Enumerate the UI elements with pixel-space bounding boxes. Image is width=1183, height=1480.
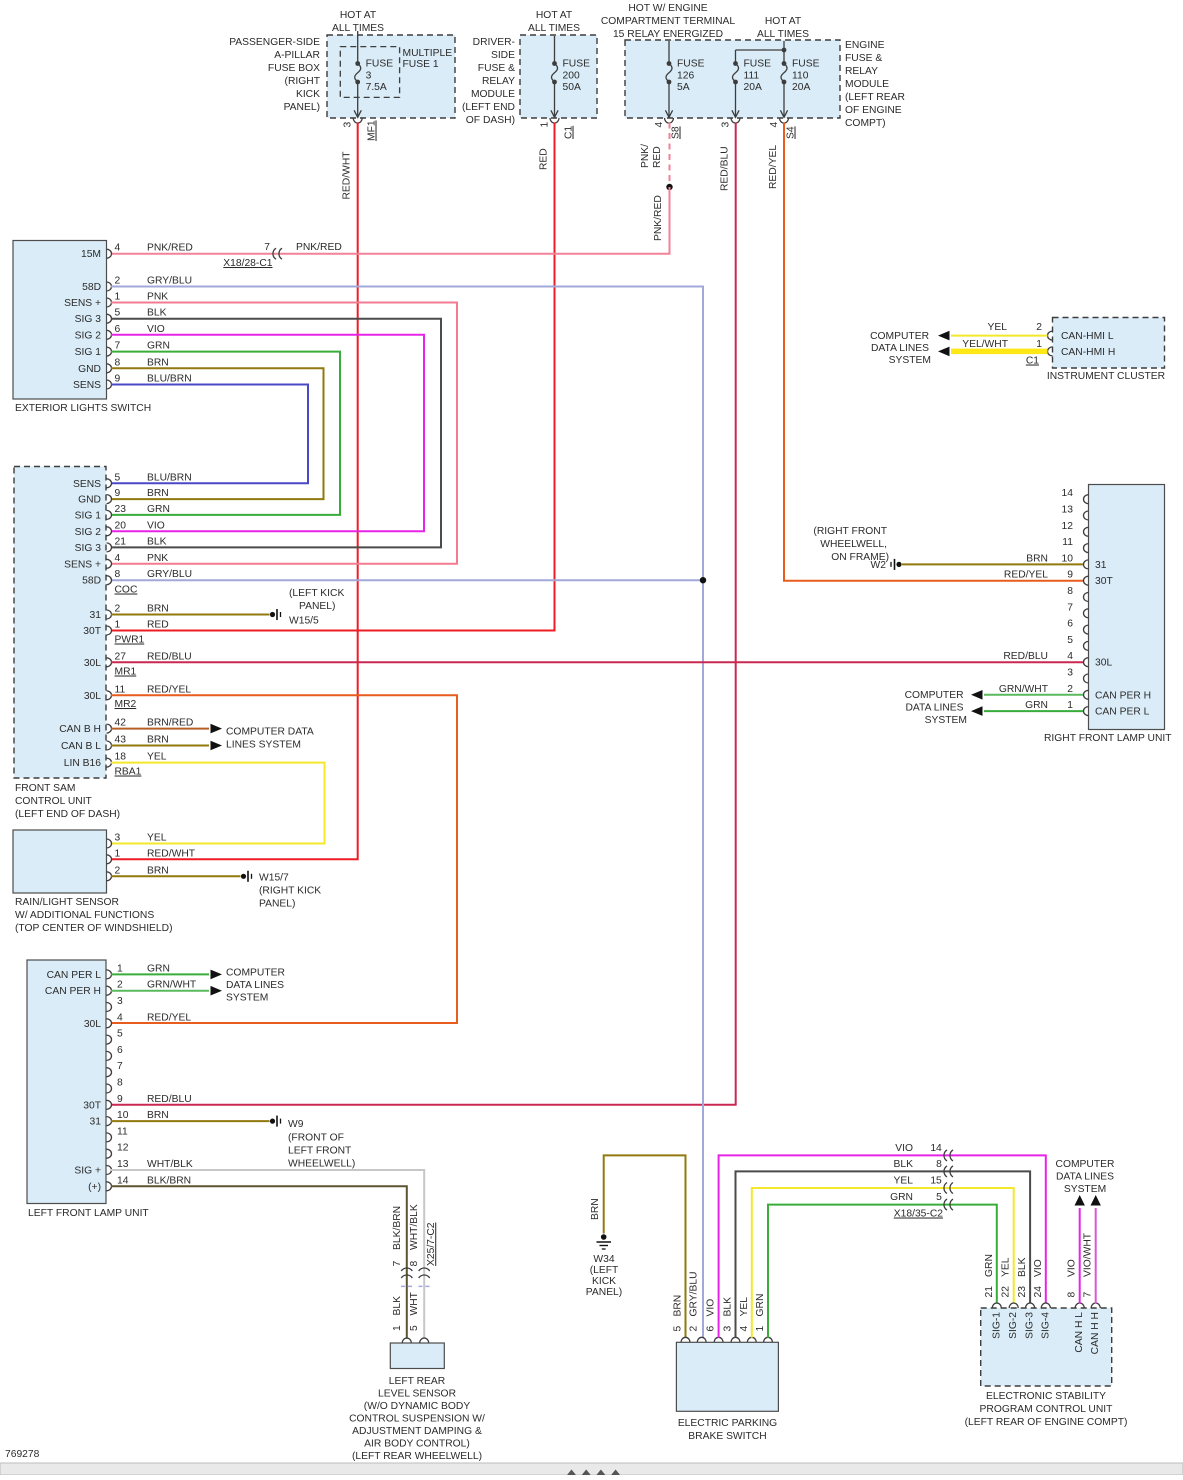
- svg-text:7: 7: [264, 242, 270, 253]
- wire BLK exterior lights switch to front SAM: [111, 319, 441, 548]
- svg-text:7: 7: [1067, 602, 1073, 613]
- svg-text:YEL: YEL: [894, 1176, 914, 1187]
- svg-text:PWR1: PWR1: [115, 635, 145, 646]
- fuse box F3: engine fuse & relay module: [601, 3, 905, 129]
- svg-text:PANEL): PANEL): [586, 1287, 622, 1298]
- svg-text:12: 12: [1062, 521, 1074, 532]
- svg-text:BRN: BRN: [147, 357, 169, 368]
- wire RED/YEL SAM pin 11 (30L) to left front lamp pin 4 (30L): [111, 695, 457, 1023]
- svg-text:2: 2: [689, 1326, 700, 1332]
- svg-text:RED/BLU: RED/BLU: [147, 651, 192, 662]
- svg-text:COMPARTMENT TERMINAL: COMPARTMENT TERMINAL: [601, 16, 736, 27]
- svg-text:4: 4: [115, 243, 121, 254]
- svg-text:CAN B H: CAN B H: [59, 724, 101, 735]
- svg-text:BRN/RED: BRN/RED: [147, 718, 193, 729]
- svg-text:W/ ADDITIONAL FUNCTIONS: W/ ADDITIONAL FUNCTIONS: [15, 910, 154, 921]
- svg-text:OF ENGINE: OF ENGINE: [845, 105, 902, 116]
- svg-text:5: 5: [115, 308, 121, 319]
- svg-text:C1: C1: [1026, 356, 1039, 367]
- wire VIO/WHT ESP CAN H H to computer data lines: [1091, 1195, 1101, 1304]
- computer data lines system label (SAM): [226, 727, 314, 751]
- svg-text:CAN-HMI L: CAN-HMI L: [1061, 331, 1114, 342]
- svg-text:WHT/BLK: WHT/BLK: [409, 1204, 420, 1250]
- svg-text:5: 5: [409, 1325, 420, 1331]
- svg-text:RIGHT FRONT LAMP UNIT: RIGHT FRONT LAMP UNIT: [1044, 733, 1172, 744]
- left front lamp unit pin 8: [107, 1078, 124, 1094]
- svg-text:58D: 58D: [82, 576, 101, 587]
- svg-text:RED/BLU: RED/BLU: [1003, 651, 1048, 662]
- svg-text:SIG 3: SIG 3: [75, 314, 102, 325]
- bottom grey band: [0, 1463, 1183, 1475]
- wire PNK/RED from S8: dashed segment, splice, to exterior lights switch 15M: [111, 123, 673, 254]
- svg-text:14: 14: [117, 1175, 129, 1186]
- svg-text:5: 5: [1067, 635, 1073, 646]
- svg-text:7: 7: [1083, 1292, 1094, 1298]
- electric parking brake switch pin 5 BRN: [673, 1295, 691, 1343]
- svg-text:BRN: BRN: [147, 865, 169, 876]
- svg-text:3: 3: [343, 122, 354, 128]
- right front lamp unit pin 6: [1067, 619, 1088, 635]
- svg-text:111: 111: [744, 71, 760, 82]
- svg-text:YEL: YEL: [1001, 1257, 1012, 1277]
- wire RED/YEL from S4 down to right front lamp pin 9 (30T): [768, 123, 1083, 581]
- svg-text:RED: RED: [539, 148, 550, 170]
- left front lamp unit box: [27, 960, 149, 1219]
- svg-text:8: 8: [1067, 586, 1073, 597]
- svg-text:LINES SYSTEM: LINES SYSTEM: [226, 740, 301, 751]
- svg-text:GRY/BLU: GRY/BLU: [689, 1271, 700, 1316]
- left front lamp unit pin 11: [107, 1126, 128, 1142]
- svg-text:769278: 769278: [5, 1449, 40, 1460]
- svg-text:BRN: BRN: [147, 488, 169, 499]
- svg-text:30T: 30T: [1095, 576, 1113, 587]
- svg-text:2: 2: [1067, 684, 1073, 695]
- ESP control unit pin 21 SIG-1 GRN: [984, 1254, 1003, 1339]
- svg-text:BLK/BRN: BLK/BRN: [147, 1175, 191, 1186]
- svg-text:X18/28-C1: X18/28-C1: [223, 258, 273, 269]
- svg-text:ADJUSTMENT DAMPING &: ADJUSTMENT DAMPING &: [352, 1426, 482, 1437]
- svg-text:C1: C1: [564, 126, 575, 139]
- svg-text:FUSE: FUSE: [677, 59, 705, 70]
- svg-text:SIG 1: SIG 1: [75, 347, 102, 358]
- front SAM pin 2 31 BRN: [90, 604, 169, 622]
- svg-text:CAN H H: CAN H H: [1090, 1312, 1101, 1354]
- svg-text:BLK: BLK: [894, 1159, 914, 1170]
- svg-text:MR2: MR2: [115, 699, 137, 710]
- svg-text:12: 12: [117, 1143, 129, 1154]
- svg-text:6: 6: [117, 1045, 123, 1056]
- svg-text:COMPT): COMPT): [845, 118, 886, 129]
- computer data lines system label (cluster): [870, 331, 931, 366]
- svg-text:2: 2: [115, 865, 121, 876]
- svg-text:RELAY: RELAY: [482, 76, 515, 87]
- svg-text:YEL/WHT: YEL/WHT: [962, 339, 1008, 350]
- front SAM pin 27 30L RED/BLU: [84, 651, 192, 669]
- svg-text:(LEFT REAR WHEELWELL): (LEFT REAR WHEELWELL): [352, 1451, 482, 1462]
- svg-text:SIG 2: SIG 2: [75, 527, 102, 538]
- svg-text:1: 1: [755, 1326, 766, 1332]
- svg-text:LEFT FRONT: LEFT FRONT: [288, 1146, 352, 1157]
- svg-text:5: 5: [936, 1192, 942, 1203]
- svg-text:18: 18: [115, 752, 127, 763]
- svg-text:4: 4: [769, 122, 780, 128]
- svg-text:ELECTRONIC STABILITY: ELECTRONIC STABILITY: [986, 1391, 1106, 1402]
- svg-text:YEL: YEL: [988, 322, 1008, 333]
- wire BLK/BRN left lamp (+) down to X25/7-C2: [111, 1186, 407, 1338]
- svg-text:BLU/BRN: BLU/BRN: [147, 472, 192, 483]
- svg-text:ALL TIMES: ALL TIMES: [528, 23, 580, 34]
- svg-text:2: 2: [117, 980, 123, 991]
- front SAM pin 43 CAN B L BRN: [61, 735, 169, 753]
- fuse box F2: driver-side fuse & relay module: [462, 10, 597, 126]
- wire GRN/WHT left lamp CAN PER H to computer data lines: [111, 986, 222, 996]
- svg-text:(LEFT KICK: (LEFT KICK: [289, 588, 344, 599]
- svg-text:BRAKE SWITCH: BRAKE SWITCH: [688, 1431, 766, 1442]
- svg-text:43: 43: [115, 735, 127, 746]
- fuse 200 50A: [551, 36, 590, 117]
- svg-text:50A: 50A: [563, 82, 581, 93]
- wire BLK to left rear level sensor pin 1: [392, 1296, 403, 1331]
- ESP control unit pin 7 CAN H H VIO/WHT: [1083, 1232, 1102, 1354]
- fuse F3 exit S4 pin 4 (fuse 110): [769, 118, 797, 139]
- right front lamp unit pin 5: [1067, 635, 1088, 651]
- svg-text:DATA LINES: DATA LINES: [871, 343, 929, 354]
- electric parking brake switch pin 6 VIO: [706, 1299, 724, 1343]
- inline connector X25/7-C2 pins 7/8: [392, 1204, 437, 1286]
- svg-text:HOT AT: HOT AT: [765, 16, 802, 27]
- right front lamp unit pin 3: [1067, 668, 1088, 684]
- svg-text:(LEFT: (LEFT: [590, 1265, 619, 1276]
- svg-text:31: 31: [90, 1117, 102, 1128]
- svg-text:INSTRUMENT CLUSTER: INSTRUMENT CLUSTER: [1047, 371, 1165, 382]
- svg-text:7: 7: [392, 1261, 403, 1267]
- svg-text:PNK/: PNK/: [640, 144, 651, 168]
- left front lamp unit pin 2 CAN PER H GRN/WHT: [45, 980, 197, 998]
- svg-text:GRY/BLU: GRY/BLU: [147, 569, 192, 580]
- svg-text:W15/5: W15/5: [289, 616, 319, 627]
- svg-text:KICK: KICK: [296, 89, 320, 100]
- right front lamp unit pin 12: [1062, 521, 1089, 537]
- svg-text:SIG-3: SIG-3: [1025, 1312, 1036, 1339]
- svg-text:LEFT REAR: LEFT REAR: [389, 1376, 445, 1387]
- svg-text:30L: 30L: [1095, 658, 1112, 669]
- svg-text:W34: W34: [593, 1254, 614, 1265]
- wire BRN/RED SAM CAN B H to computer data lines: [111, 724, 222, 734]
- svg-text:1: 1: [115, 292, 121, 303]
- svg-text:BLK: BLK: [147, 308, 167, 319]
- svg-text:CAN PER H: CAN PER H: [45, 986, 101, 997]
- svg-text:VIO: VIO: [147, 324, 165, 335]
- svg-text:X18/35-C2: X18/35-C2: [894, 1209, 944, 1220]
- svg-text:GRN/WHT: GRN/WHT: [999, 684, 1049, 695]
- computer data lines system label (left lamp): [226, 968, 285, 1004]
- svg-text:BLU/BRN: BLU/BRN: [147, 374, 192, 385]
- svg-text:BLK: BLK: [147, 536, 167, 547]
- svg-text:ELECTRIC PARKING: ELECTRIC PARKING: [678, 1418, 777, 1429]
- svg-text:LEFT FRONT LAMP UNIT: LEFT FRONT LAMP UNIT: [28, 1208, 149, 1219]
- svg-text:COMPUTER: COMPUTER: [905, 690, 964, 701]
- svg-text:DATA LINES: DATA LINES: [906, 703, 964, 714]
- svg-text:20: 20: [115, 520, 127, 531]
- svg-text:(W/O DYNAMIC BODY: (W/O DYNAMIC BODY: [364, 1401, 471, 1412]
- svg-text:42: 42: [115, 718, 127, 729]
- svg-text:11: 11: [115, 684, 126, 695]
- svg-text:A-PILLAR: A-PILLAR: [274, 50, 320, 61]
- svg-text:FUSE: FUSE: [744, 59, 772, 70]
- svg-text:FUSE &: FUSE &: [478, 63, 515, 74]
- svg-text:MODULE: MODULE: [845, 79, 889, 90]
- svg-text:8: 8: [1067, 1292, 1078, 1298]
- svg-text:SYSTEM: SYSTEM: [1064, 1184, 1106, 1195]
- svg-text:200: 200: [563, 71, 580, 82]
- svg-text:15M: 15M: [81, 249, 101, 260]
- svg-text:2: 2: [115, 276, 121, 287]
- svg-text:AIR BODY CONTROL): AIR BODY CONTROL): [364, 1439, 470, 1450]
- svg-text:3: 3: [117, 996, 123, 1007]
- right front lamp unit pin 8: [1067, 586, 1088, 602]
- wire GRN/WHT right lamp CAN PER H to computer data lines: [971, 690, 1083, 700]
- svg-text:7: 7: [117, 1061, 123, 1072]
- svg-text:GRN: GRN: [147, 341, 170, 352]
- svg-text:ALL TIMES: ALL TIMES: [757, 29, 809, 40]
- front SAM pin 23 SIG 1 GRN: [75, 504, 170, 522]
- front SAM pin 20 SIG 2 VIO: [75, 520, 165, 538]
- svg-text:RELAY: RELAY: [845, 66, 878, 77]
- svg-text:21: 21: [115, 536, 127, 547]
- right front lamp unit pin 11: [1062, 537, 1088, 553]
- right front lamp unit pin 13: [1062, 505, 1089, 521]
- svg-text:CONTROL UNIT: CONTROL UNIT: [15, 796, 93, 807]
- svg-text:DRIVER-: DRIVER-: [473, 37, 515, 48]
- exterior lights switch pin 4 15M PNK/RED: [81, 243, 193, 261]
- fuse 111 20A: [732, 59, 771, 118]
- left front lamp unit pin 4 30L RED/YEL: [84, 1012, 192, 1030]
- left front lamp unit pin 6: [107, 1045, 124, 1061]
- svg-text:4: 4: [117, 1012, 123, 1023]
- left front lamp unit pin 12: [107, 1143, 129, 1159]
- svg-text:30L: 30L: [84, 658, 101, 669]
- svg-text:8: 8: [409, 1261, 420, 1267]
- svg-text:RED/BLU: RED/BLU: [720, 146, 731, 191]
- svg-text:FUSE &: FUSE &: [845, 53, 882, 64]
- front SAM pin 11 30L RED/YEL: [84, 684, 192, 702]
- ESP control unit box (dashed): [965, 1308, 1128, 1428]
- ESP control unit pin 23 SIG-3 BLK: [1017, 1257, 1036, 1339]
- fuse F3 exit pin 3 (fuse 111): [721, 118, 741, 128]
- svg-text:SIG-2: SIG-2: [1008, 1312, 1019, 1339]
- svg-text:1: 1: [115, 620, 121, 631]
- wire BLK parking brake pin 3 to ESP SIG-3: [736, 1171, 1031, 1337]
- svg-text:1: 1: [1036, 339, 1042, 350]
- svg-text:30T: 30T: [83, 1100, 101, 1111]
- svg-text:COMPUTER DATA: COMPUTER DATA: [226, 727, 314, 738]
- wire PNK exterior lights switch to front SAM: [111, 303, 457, 564]
- wire GRN right lamp CAN PER L to computer data lines: [971, 706, 1083, 716]
- ESP control unit pin 24 SIG-4 VIO: [1033, 1259, 1052, 1339]
- svg-text:PNK/RED: PNK/RED: [653, 195, 664, 241]
- svg-text:FUSE 1: FUSE 1: [403, 59, 439, 70]
- svg-text:W15/7: W15/7: [259, 873, 289, 884]
- svg-text:GRN: GRN: [147, 504, 170, 515]
- electric parking brake switch pin 4 YEL: [739, 1297, 757, 1343]
- svg-text:3: 3: [115, 833, 121, 844]
- right front lamp unit pin 9 30T RED/YEL: [1004, 570, 1114, 588]
- svg-text:(LEFT END: (LEFT END: [462, 102, 515, 113]
- front SAM pin 1 30T RED: [83, 620, 169, 638]
- svg-text:GRN: GRN: [755, 1294, 766, 1317]
- svg-text:ON FRAME): ON FRAME): [831, 552, 889, 563]
- svg-text:14: 14: [1062, 488, 1074, 499]
- svg-text:FUSE: FUSE: [563, 59, 591, 70]
- svg-text:W9: W9: [288, 1119, 304, 1130]
- fuse F3 exit S8 pin 4: [654, 118, 682, 139]
- svg-text:7.5A: 7.5A: [366, 82, 387, 93]
- svg-text:13: 13: [117, 1159, 129, 1170]
- svg-text:1: 1: [115, 848, 121, 859]
- svg-text:30L: 30L: [84, 691, 101, 702]
- svg-text:20A: 20A: [792, 82, 810, 93]
- svg-text:BRN: BRN: [673, 1295, 684, 1317]
- svg-text:HOT AT: HOT AT: [536, 10, 573, 21]
- svg-text:27: 27: [115, 651, 127, 662]
- svg-text:4: 4: [654, 122, 665, 128]
- left front lamp unit pin 7: [107, 1061, 124, 1077]
- svg-text:BLK/BRN: BLK/BRN: [392, 1206, 403, 1250]
- wire VIO ESP CAN H L to computer data lines: [1075, 1195, 1085, 1304]
- exterior lights switch pin 9 SENS BLU/BRN: [73, 374, 192, 392]
- svg-text:RED/BLU: RED/BLU: [147, 1094, 192, 1105]
- rain/light sensor pin 2 BRN: [107, 865, 169, 881]
- svg-text:6: 6: [706, 1326, 717, 1332]
- svg-text:2: 2: [1036, 322, 1042, 333]
- svg-text:SIG 3: SIG 3: [75, 543, 102, 554]
- svg-text:(LEFT END OF DASH): (LEFT END OF DASH): [15, 809, 120, 820]
- exterior lights switch box: [13, 241, 151, 415]
- svg-text:GRY/BLU: GRY/BLU: [147, 276, 192, 287]
- right front lamp unit pin 10 31 BRN: [1026, 553, 1106, 571]
- wire BLU/BRN exterior lights switch to front SAM: [111, 385, 308, 484]
- svg-text:9: 9: [117, 1094, 123, 1105]
- svg-text:RED/WHT: RED/WHT: [147, 848, 196, 859]
- svg-text:GND: GND: [78, 495, 101, 506]
- wire BRN from ground W34 to electric parking brake pin 5: [590, 1155, 686, 1337]
- svg-text:15 RELAY ENERGIZED: 15 RELAY ENERGIZED: [613, 29, 723, 40]
- svg-text:DATA LINES: DATA LINES: [226, 980, 284, 991]
- svg-text:9: 9: [1067, 570, 1073, 581]
- svg-text:COMPUTER: COMPUTER: [870, 331, 929, 342]
- front SAM pin 5 SENS BLU/BRN: [73, 472, 192, 490]
- front SAM pin 18 LIN B16 YEL: [64, 752, 167, 770]
- svg-text:GRN/WHT: GRN/WHT: [147, 980, 197, 991]
- svg-text:GND: GND: [78, 364, 101, 375]
- wire RED/BLU from fuse 111 down to left front lamp pin 9: [111, 123, 736, 1105]
- svg-text:BRN: BRN: [590, 1198, 601, 1220]
- svg-text:WHEELWELL): WHEELWELL): [288, 1159, 355, 1170]
- svg-text:3: 3: [366, 71, 372, 82]
- svg-text:WHT/BLK: WHT/BLK: [147, 1159, 193, 1170]
- svg-text:31: 31: [1095, 560, 1107, 571]
- svg-text:PANEL): PANEL): [299, 601, 335, 612]
- svg-text:RED/YEL: RED/YEL: [768, 145, 779, 189]
- svg-text:11: 11: [1062, 537, 1073, 548]
- svg-text:(RIGHT FRONT: (RIGHT FRONT: [813, 526, 887, 537]
- svg-text:110: 110: [792, 71, 809, 82]
- svg-text:13: 13: [1062, 505, 1074, 516]
- left front lamp unit pin 13 SIG + WHT/BLK: [74, 1159, 193, 1177]
- electric parking brake switch box: [676, 1342, 778, 1442]
- svg-text:SYSTEM: SYSTEM: [226, 993, 268, 1004]
- svg-text:WHEELWELL,: WHEELWELL,: [820, 539, 887, 550]
- svg-text:MULTIPLE: MULTIPLE: [403, 48, 453, 59]
- front SAM pin 21 SIG 3 BLK: [75, 536, 167, 554]
- svg-text:FRONT SAM: FRONT SAM: [15, 783, 75, 794]
- computer data lines system label (ESP): [1056, 1159, 1115, 1195]
- svg-text:14: 14: [930, 1143, 942, 1154]
- instrument cluster box (dashed): [1047, 318, 1165, 383]
- instrument cluster pin 1 CAN-HMI H, wire YEL/WHT (thick): [938, 339, 1115, 367]
- fuse 110 20A: [780, 59, 819, 118]
- fuse 126 5A: [665, 41, 704, 117]
- svg-text:PNK/RED: PNK/RED: [296, 242, 342, 253]
- fuse box F1: passenger-side A-pillar fuse box: [229, 10, 455, 118]
- left front lamp unit pin 9 30T RED/BLU: [83, 1094, 191, 1112]
- rain/light sensor pin 3 YEL: [107, 833, 167, 849]
- svg-text:6: 6: [115, 324, 121, 335]
- right front lamp unit pin 14: [1062, 488, 1089, 504]
- svg-text:BRN: BRN: [147, 735, 169, 746]
- svg-text:8: 8: [936, 1159, 942, 1170]
- svg-text:SIG 2: SIG 2: [75, 330, 102, 341]
- svg-text:20A: 20A: [744, 82, 762, 93]
- svg-text:PASSENGER-SIDE: PASSENGER-SIDE: [229, 37, 320, 48]
- svg-text:MR1: MR1: [115, 667, 137, 678]
- svg-text:FUSE: FUSE: [366, 59, 394, 70]
- svg-text:VIO: VIO: [1033, 1259, 1044, 1277]
- wire GRN exterior lights switch to front SAM: [111, 352, 340, 515]
- svg-text:HOT W/ ENGINE: HOT W/ ENGINE: [628, 3, 707, 14]
- svg-text:KICK: KICK: [592, 1276, 616, 1287]
- svg-text:COC: COC: [115, 585, 138, 596]
- wire YEL SAM LIN B16 to rain/light sensor pin 3: [111, 763, 325, 844]
- svg-text:BLK: BLK: [723, 1297, 734, 1317]
- wire WHT to left rear level sensor pin 5: [409, 1291, 420, 1331]
- svg-text:PROGRAM CONTROL UNIT: PROGRAM CONTROL UNIT: [980, 1404, 1114, 1415]
- svg-text:4: 4: [1067, 651, 1073, 662]
- front SAM pin 9 GND BRN: [78, 488, 169, 506]
- electric parking brake switch pin 1 GRN: [755, 1294, 773, 1343]
- svg-text:1: 1: [117, 963, 123, 974]
- svg-text:YEL: YEL: [147, 752, 167, 763]
- rain/light sensor pin 1 RED/WHT: [107, 848, 196, 864]
- svg-text:VIO: VIO: [706, 1299, 717, 1317]
- svg-text:RED/YEL: RED/YEL: [1004, 570, 1048, 581]
- svg-text:BRN: BRN: [1026, 553, 1048, 564]
- wire VIO exterior lights switch to front SAM: [111, 335, 424, 532]
- multiple fuse 1 inner box: [340, 47, 452, 98]
- left front lamp unit pin 10 31 BRN: [90, 1110, 169, 1128]
- svg-text:PANEL): PANEL): [259, 899, 295, 910]
- svg-text:MODULE: MODULE: [471, 89, 515, 100]
- svg-text:RED/WHT: RED/WHT: [342, 151, 353, 200]
- svg-text:4: 4: [739, 1326, 750, 1332]
- svg-text:5A: 5A: [677, 82, 690, 93]
- wire BRN right lamp pin 10 to ground W2: [813, 526, 1083, 571]
- wire BRN SAM CAN B L to computer data lines: [111, 741, 222, 751]
- svg-text:3: 3: [721, 122, 732, 128]
- svg-text:COMPUTER: COMPUTER: [1056, 1159, 1115, 1170]
- instrument cluster pin 2 CAN-HMI L, wire YEL: [938, 322, 1114, 342]
- svg-text:21: 21: [984, 1286, 995, 1298]
